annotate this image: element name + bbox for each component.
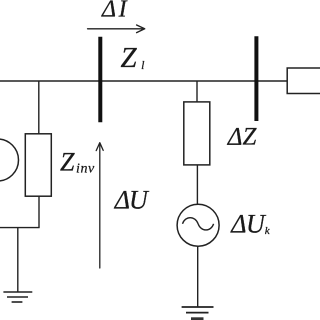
source G1 (AC source circle, clipped at left edge) [0, 139, 19, 181]
svg-text:ΔZ: ΔZ [227, 124, 258, 151]
ground (left) [3, 292, 32, 302]
load block (equivalent network, clipped at right edge) [287, 68, 320, 94]
svg-text:ΔUk: ΔUk [230, 210, 271, 239]
resistor Z_inv (impedance rectangle) [25, 134, 51, 196]
wire: branch from tie down to ΔZ [196, 81, 198, 102]
svg-text:Zinv: Zinv [60, 148, 95, 177]
wire: down lead to left ground [17, 228, 19, 292]
wire: Z_inv bottom lead [38, 196, 40, 227]
svg-text:ΔU: ΔU [114, 186, 150, 215]
sine wave inside source [183, 218, 214, 230]
svg-text:Zl: Zl [121, 42, 146, 74]
resistor ΔZ (impedance rectangle) [184, 102, 210, 165]
wire: main horizontal tie between buses [0, 80, 287, 82]
wire: source to right ground [197, 246, 199, 307]
svg-text:ΔI: ΔI [101, 0, 129, 23]
bus B2 (thick bar, right) [254, 36, 258, 121]
arrow: voltage annotation ΔU (points up) [96, 143, 103, 268]
source ΔU_k (AC source circle) [177, 204, 219, 246]
wire: horizontal return to ground branch [0, 227, 40, 229]
bus B1 (thick bar, left) [98, 37, 102, 122]
wire: branch from tie down to Z_inv [38, 81, 40, 134]
wire: ΔZ to source [196, 165, 198, 204]
arrow: current direction ΔI [88, 25, 145, 33]
ground (right) [182, 307, 214, 313]
